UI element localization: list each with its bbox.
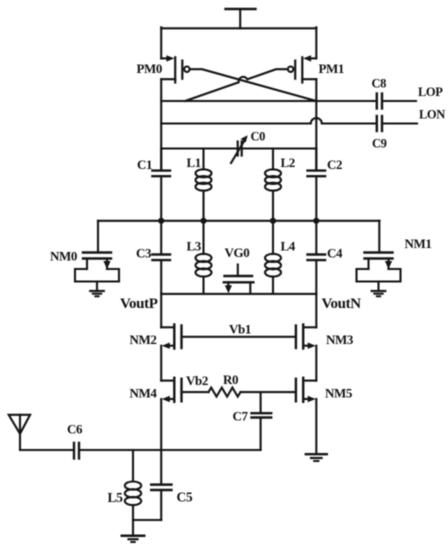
wire PM1 gate to left node (diagonal B with hop): [185, 69, 288, 101]
wire left rail mid: [160, 79, 162, 170]
wire antenna to C6: [20, 449, 73, 451]
svg-text:C9: C9: [372, 137, 387, 151]
svg-text:C0: C0: [251, 130, 266, 144]
wire Vb1 line: [182, 336, 296, 338]
svg-text:C1: C1: [137, 157, 152, 172]
capacitor C3: [152, 221, 170, 294]
supply stem wire: [239, 9, 241, 28]
svg-text:L1: L1: [187, 155, 201, 170]
capacitor C8: [377, 94, 416, 109]
wire left column to NM2: [160, 294, 162, 327]
node dot L2 column: [270, 218, 276, 224]
capacitor C1: [152, 149, 170, 221]
wire bottom join: [133, 519, 161, 521]
resistor R0: [209, 388, 241, 397]
wire PM0 gate to right node (diagonal A): [190, 69, 317, 101]
wire LOP line: [161, 100, 376, 102]
svg-text:C3: C3: [136, 246, 152, 261]
svg-text:C4: C4: [327, 246, 343, 261]
transistor NM3: [296, 325, 316, 349]
svg-text:L5: L5: [108, 490, 124, 505]
wire NM4 source column down: [160, 399, 162, 483]
transistor NM2: [161, 325, 181, 349]
svg-text:C2: C2: [327, 157, 342, 172]
transistor VG0: [224, 265, 254, 294]
svg-text:NM0: NM0: [50, 249, 77, 264]
transistor PM1: [288, 55, 316, 82]
wire NM5 source column down: [315, 399, 317, 454]
capacitor C7: [252, 413, 272, 450]
ground NM5: [306, 454, 327, 461]
wire Vb2 segment: [182, 391, 209, 393]
svg-text:NM4: NM4: [130, 386, 158, 401]
svg-text:L3: L3: [187, 239, 202, 254]
svg-text:NM3: NM3: [326, 332, 354, 347]
top rail wire: [161, 27, 316, 29]
svg-text:L2: L2: [281, 155, 295, 170]
svg-text:NM5: NM5: [325, 386, 353, 401]
wire R0 to NM5 gate: [241, 391, 296, 393]
svg-text:VoutP: VoutP: [120, 296, 158, 312]
capacitor C5: [151, 485, 171, 520]
transistor NM5: [296, 378, 316, 402]
wire L5 branch: [132, 450, 134, 480]
capacitor C2: [308, 149, 326, 221]
inductor L3: [196, 221, 212, 294]
svg-text:Vb1: Vb1: [229, 322, 251, 337]
wire left rail top: [160, 27, 162, 58]
wire right column NM3->NM5: [315, 346, 317, 381]
wire LON line with hop over right rail: [161, 118, 376, 124]
capacitor C6: [74, 443, 79, 459]
node dot L1 column: [200, 218, 206, 224]
wire mid rail: [98, 220, 380, 222]
svg-text:LOP: LOP: [418, 85, 443, 99]
supply bar: [226, 8, 256, 10]
wire right rail mid: [315, 79, 317, 170]
inductor L1: [196, 149, 212, 221]
transistor PM0: [161, 55, 189, 82]
svg-text:C7: C7: [233, 409, 249, 424]
svg-text:VG0: VG0: [225, 245, 250, 260]
capacitor C9: [377, 116, 417, 131]
ground L5: [122, 520, 144, 542]
wire left column NM2->NM4: [160, 346, 162, 381]
svg-text:NM1: NM1: [405, 236, 432, 251]
capacitor C0 (varactor): [231, 135, 248, 163]
node dot C1 column: [158, 218, 164, 224]
svg-text:NM2: NM2: [130, 332, 157, 347]
node dot C2 column: [313, 218, 319, 224]
capacitor C4: [308, 221, 326, 294]
inductor L4: [265, 221, 281, 294]
transistor NM0 (MOS cap): [75, 221, 119, 296]
wire RF line: [80, 449, 261, 451]
wire Vout line: [161, 293, 316, 295]
svg-text:PM1: PM1: [319, 61, 345, 76]
wire right rail top: [315, 27, 317, 58]
wire down to C7: [260, 392, 262, 412]
transistor NM4: [161, 378, 181, 402]
antenna: [9, 415, 30, 450]
svg-text:C6: C6: [67, 422, 83, 437]
inductor L5: [125, 482, 141, 521]
svg-text:Vb2: Vb2: [186, 373, 208, 388]
svg-text:VoutN: VoutN: [322, 296, 362, 312]
svg-text:C5: C5: [177, 490, 193, 505]
wire right column to NM3: [315, 294, 317, 327]
svg-text:R0: R0: [223, 372, 238, 387]
svg-text:LON: LON: [419, 108, 445, 122]
wire tank top line: [161, 147, 237, 149]
svg-text:PM0: PM0: [137, 61, 163, 76]
transistor NM1 (MOS cap): [357, 221, 401, 296]
svg-text:L4: L4: [281, 239, 296, 254]
inductor L2: [265, 149, 281, 221]
svg-text:C8: C8: [372, 77, 387, 91]
